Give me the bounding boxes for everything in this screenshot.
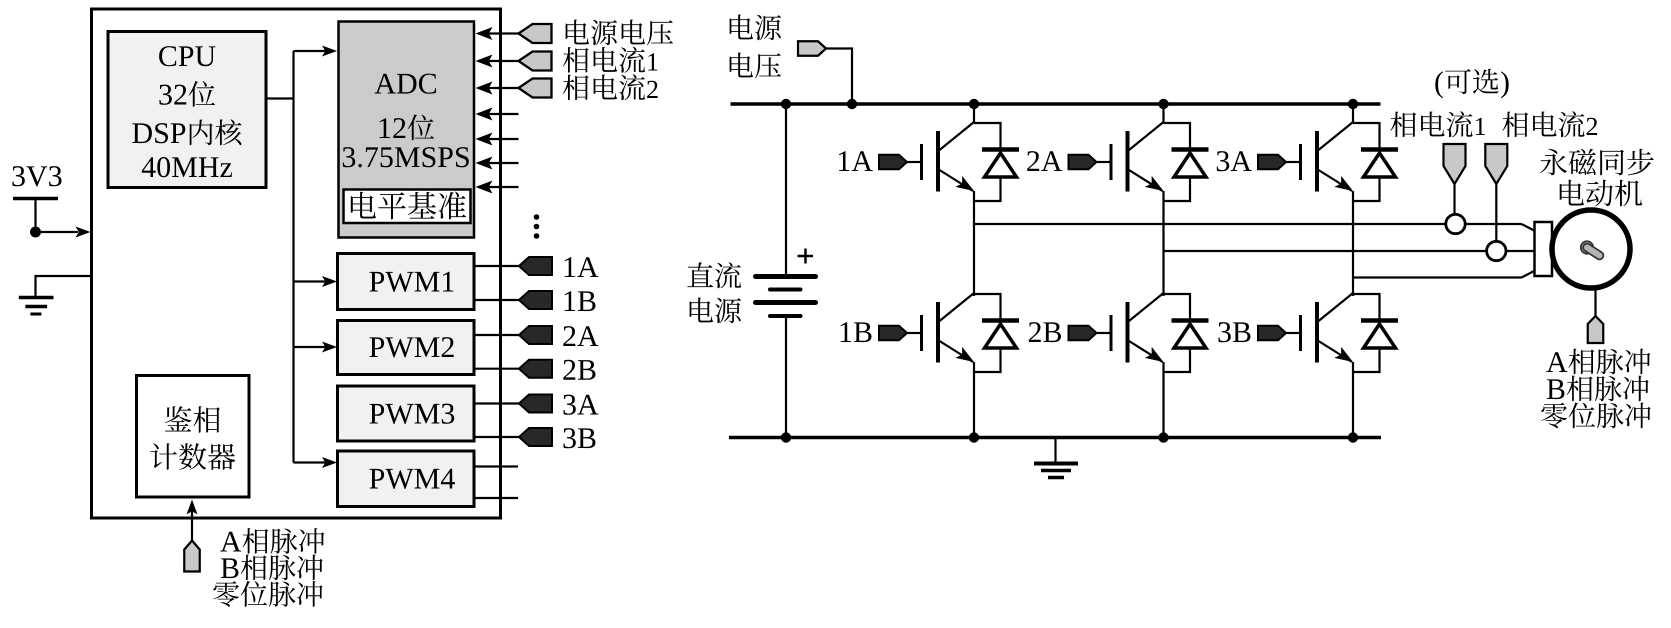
相电流2 label xyxy=(1502,111,1597,137)
ADC block xyxy=(339,22,475,238)
DSP chip outer box U1 xyxy=(92,9,501,518)
IGBT 1A xyxy=(973,104,975,123)
CPU label xyxy=(159,46,215,66)
零位脉冲 label (right) xyxy=(1541,403,1650,429)
ellipsis dots xyxy=(534,214,540,220)
phase discriminator counter block 鉴相计数器 xyxy=(137,376,250,498)
DC+ top rail xyxy=(731,102,1381,106)
ADC input arrow 6 xyxy=(478,162,519,164)
phase line 1 taper xyxy=(1522,224,1536,231)
level reference box 电平基准 xyxy=(344,190,471,224)
零位脉冲 label (left) xyxy=(213,581,322,607)
B相脉冲 label (left) xyxy=(221,555,323,581)
junction dot bottom rail xyxy=(1158,432,1168,442)
gate connector 1B (black) xyxy=(879,326,907,341)
power ground symbol xyxy=(1054,438,1056,463)
40MHz label xyxy=(142,157,232,177)
(可选) label xyxy=(1435,69,1508,99)
freewheel diode D2A xyxy=(1164,123,1191,149)
电源电压 label (top) xyxy=(730,15,781,41)
label 1B xyxy=(841,322,872,342)
直流电源 label xyxy=(687,262,741,288)
connector 相电流2 (gray) xyxy=(519,79,552,98)
ADC input arrow 4 xyxy=(478,113,519,115)
connector 3B (black) xyxy=(519,428,552,446)
connector 2A (black) xyxy=(519,326,552,344)
freewheel diode D1A xyxy=(974,123,1001,149)
connector 1B (black) xyxy=(519,291,552,309)
wire 3V3 to node xyxy=(34,199,36,233)
sensor connector 2 (gray, down) xyxy=(1485,144,1507,184)
wire connector to rail xyxy=(826,49,852,105)
freewheel diode D3A xyxy=(1353,123,1380,149)
ADC input arrow 2 xyxy=(478,60,519,62)
connector 2B (black) xyxy=(519,360,552,378)
encoder connector (gray, up) xyxy=(1588,316,1604,343)
永磁同步 label xyxy=(1540,149,1654,176)
junction dot bottom rail xyxy=(1348,432,1358,442)
motor terminal block xyxy=(1535,222,1553,276)
PWM3 block xyxy=(338,386,475,441)
3V3 supply bar xyxy=(13,197,58,201)
相电流1 label xyxy=(1390,111,1485,137)
ADC input arrow 3 xyxy=(478,87,519,89)
IGBT 3B xyxy=(1319,293,1354,321)
junction dot top rail xyxy=(847,99,857,109)
PWM output wire 1A xyxy=(474,265,520,267)
gate connector 3A (black) xyxy=(1258,155,1286,170)
phase line 1 xyxy=(974,223,1522,225)
connector 电源电压 (gray) xyxy=(519,24,552,43)
bottom rail xyxy=(729,436,1381,440)
3.75MSPS label xyxy=(343,147,469,167)
IGBT 1B xyxy=(940,293,975,321)
电动机 label xyxy=(1560,180,1643,207)
IGBT 3A xyxy=(1352,104,1354,123)
label 2B xyxy=(1029,322,1061,342)
arrow into PWM1 xyxy=(294,280,327,282)
32位 label xyxy=(159,81,215,107)
ground wire from DSP xyxy=(36,276,92,297)
junction dot top rail xyxy=(1158,99,1168,109)
CPU output wire xyxy=(266,97,295,99)
junction dot bottom rail xyxy=(781,432,791,442)
phase leg 1 vertical xyxy=(973,191,975,296)
3V3 label xyxy=(12,166,61,186)
freewheel diode D2B xyxy=(1164,294,1191,320)
IGBT 2A xyxy=(1162,104,1164,123)
PWM output wire 1B xyxy=(474,299,520,301)
label 3B xyxy=(1218,322,1250,342)
junction dot top rail xyxy=(781,99,791,109)
ADC input arrow 1 xyxy=(478,32,519,34)
internal bus (vertical) xyxy=(292,51,294,463)
battery 直流电源 xyxy=(785,104,787,274)
A相脉冲 label (left) xyxy=(220,528,324,554)
junction dot bottom rail xyxy=(969,432,979,442)
junction dot top rail xyxy=(969,99,979,109)
PWM1 block xyxy=(338,254,475,310)
PWM output wire 3A xyxy=(474,402,520,404)
gate connector 3B (black) xyxy=(1258,326,1286,341)
CPU block xyxy=(108,32,266,188)
PWM output wire 2A xyxy=(474,334,520,336)
ADC input arrow 5 xyxy=(478,138,519,140)
node dot xyxy=(30,227,41,238)
label 1A xyxy=(839,151,873,171)
ground symbol (left) xyxy=(19,296,54,300)
arrow into DSP xyxy=(36,231,79,233)
phase line 3 taper xyxy=(1522,271,1536,278)
sensor 1 lead xyxy=(1453,184,1455,216)
rotor key xyxy=(1581,241,1593,253)
A相脉冲 label (right) xyxy=(1546,349,1650,375)
gate connector 2A (black) xyxy=(1069,155,1097,170)
sensor connector 1 (gray, down) xyxy=(1444,144,1466,184)
gate connector 1A (black) xyxy=(879,155,907,170)
freewheel diode D3B xyxy=(1353,294,1380,320)
current sensor ring 2 xyxy=(1487,241,1506,260)
encoder wire xyxy=(1594,290,1596,316)
PWM output wire 2B xyxy=(474,368,520,370)
encoder input arrow into counter xyxy=(191,511,193,541)
label 2A xyxy=(1027,151,1062,171)
sensor 2 lead xyxy=(1495,184,1497,243)
B相脉冲 label (right) xyxy=(1547,376,1649,402)
arrow into PWM4 xyxy=(294,461,327,463)
IGBT 2B xyxy=(1129,293,1164,321)
PWM output wire 3B xyxy=(474,436,520,438)
connector 相电流1 (gray) xyxy=(519,52,552,71)
junction dot top rail xyxy=(1348,99,1358,109)
connector 3A (black) xyxy=(519,395,552,413)
phase line 3 xyxy=(1353,276,1522,278)
VCC sense connector (gray, right) xyxy=(798,41,826,56)
PWM2 block xyxy=(338,321,475,375)
phase leg 3 vertical xyxy=(1352,191,1354,296)
current sensor ring 1 xyxy=(1446,214,1465,233)
ADC input arrow 7 xyxy=(478,186,519,188)
freewheel diode D1B xyxy=(974,294,1001,320)
DSP内核 label xyxy=(132,119,241,145)
PWM4 block xyxy=(338,451,475,507)
PMSM motor circle 永磁同步电动机 xyxy=(1552,210,1630,288)
phase line 2 xyxy=(1164,250,1536,252)
phase leg 2 vertical xyxy=(1162,191,1164,296)
PWM4 stub wires xyxy=(474,465,519,467)
arrow into PWM2 xyxy=(294,346,327,348)
ADC label xyxy=(375,74,436,94)
arrow into ADC xyxy=(294,50,327,52)
label 3A xyxy=(1217,151,1252,171)
plus sign xyxy=(798,255,814,258)
gate connector 2B (black) xyxy=(1069,326,1097,341)
connector 1A (black) xyxy=(519,257,552,275)
12位 label xyxy=(380,115,435,141)
encoder connector (gray, up) xyxy=(184,541,200,572)
